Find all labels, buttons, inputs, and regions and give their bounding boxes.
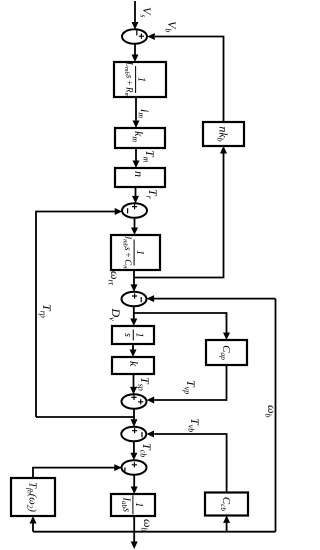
arrowhead bottom into Ccb — [223, 515, 230, 523]
arrowhead bottom into Tfb — [30, 516, 37, 524]
arrowhead into sum2 — [132, 196, 139, 204]
summing junction sum6 — [122, 460, 147, 475]
sign plus sum4 right — [138, 399, 143, 404]
wire sum6 to I-block — [133, 475, 135, 488]
arrowhead into sum3 — [131, 284, 138, 292]
arrowhead into sum6 — [130, 453, 137, 461]
block text fraction 1/(Lmb s+Rm) — [123, 61, 147, 98]
arrowhead Tfb into sum6 — [114, 464, 122, 471]
sign plus sum6 top — [132, 462, 137, 467]
summing junction sum5 — [121, 427, 146, 442]
arrowhead Trp into sum2 — [115, 208, 123, 215]
arrowhead into I-block — [131, 487, 138, 495]
block 1/(Lmb s+Rm) — [114, 62, 166, 97]
svg-text:1: 1 — [134, 250, 145, 255]
wire I-block to output — [133, 516, 135, 542]
wire sum2 to Jblock — [134, 218, 136, 229]
wire km to n — [135, 148, 137, 162]
wire s-block to k-block — [132, 344, 134, 351]
wire Ccb to sum5 — [154, 434, 226, 493]
arrowhead into sum5 — [131, 419, 138, 427]
wire bottom bus — [33, 531, 276, 533]
arrowhead Vb into sum1 — [147, 33, 155, 40]
wire sum5 to sum6 — [133, 441, 135, 453]
sign minus sum2 left — [127, 208, 129, 213]
block km — [115, 128, 165, 148]
svg-text:1: 1 — [136, 77, 147, 82]
arrowhead into k-block — [130, 350, 137, 358]
svg-text:s: s — [122, 333, 133, 337]
wire omega_b right riser — [275, 299, 277, 532]
svg-text:Lmbs + Rm: Lmbs + Rm — [123, 61, 135, 98]
block n — [115, 168, 165, 187]
wire sum3 to s-block — [133, 306, 135, 319]
sign plus sum3 top — [132, 293, 137, 298]
sign minus sum5 right — [141, 432, 143, 437]
wire Tfb to sum6 — [33, 468, 115, 478]
summing junction sum1 — [122, 29, 147, 44]
sign plus sum2 top — [132, 204, 137, 209]
wire omega_rt tap to nkb — [134, 153, 224, 278]
block Tfb(w2) — [11, 478, 55, 516]
wire n to sum2 — [135, 187, 137, 197]
sign minus sum6 left — [124, 467, 126, 472]
sign plus sum4 top — [131, 395, 136, 400]
wire tap to Trp feedback — [36, 416, 134, 418]
arrowhead into Jblock — [131, 228, 138, 236]
wire Cap to sum4 — [154, 365, 226, 400]
wire bottom into Tfb — [32, 523, 34, 532]
svg-text:Tfb(ω2): Tfb(ω2) — [25, 482, 37, 512]
block 1/s — [112, 326, 154, 344]
svg-text:1: 1 — [133, 333, 144, 338]
wire tap to Cap — [134, 313, 227, 334]
arrowhead into km — [133, 121, 140, 129]
arrowhead into n — [133, 161, 140, 169]
block Ccb — [205, 493, 248, 516]
summing junction sum2 — [122, 203, 147, 218]
block Cap — [206, 340, 247, 365]
arrowhead Tvb into sum5 — [147, 431, 155, 438]
wire sum1 to block1 — [134, 44, 136, 56]
sign minus sum3 right — [140, 297, 142, 302]
block text fraction 1/(Jmb s+Cm) — [121, 235, 145, 270]
arrowhead output bottom — [131, 542, 138, 550]
block nkb — [203, 122, 244, 146]
arrowhead omega_b into sum3 — [147, 295, 155, 302]
wire k-block to sum4 — [133, 374, 135, 388]
sign minus sum1 top — [136, 30, 138, 35]
arrowhead Tvp into sum4 — [147, 397, 155, 404]
wire Trp feedback into sum2 — [36, 212, 116, 418]
wire Vs input — [134, 1, 136, 23]
summing junction sum4 — [122, 394, 147, 409]
arrowhead into s-block — [130, 319, 137, 327]
arrowhead into nkb — [220, 146, 227, 154]
svg-text:1: 1 — [133, 502, 144, 507]
wire omega_b into sum3 — [154, 298, 276, 300]
svg-text:n: n — [132, 171, 146, 177]
wire block1 to km — [135, 97, 137, 122]
block 1/(Iab s) — [111, 494, 155, 516]
arrowhead into block1 — [132, 55, 139, 63]
wire Vb feedback horizontal — [155, 37, 224, 123]
block text fraction 1/s — [122, 330, 144, 341]
arrowhead Vs into sum1 — [132, 22, 139, 30]
block text fraction 1/(Iab s) — [120, 495, 144, 514]
wire Jblock to sum3 — [133, 270, 135, 285]
summing junction sum3 — [122, 292, 147, 307]
sign plus sum5 top — [132, 428, 137, 433]
block 1/(Jmb s+Cm) — [111, 235, 160, 270]
sign plus sum1 right — [139, 34, 144, 39]
block k — [112, 357, 154, 374]
wire sum4 to sum5 — [133, 409, 135, 420]
arrowhead into Cap — [223, 333, 230, 341]
arrowhead into sum4 — [130, 387, 137, 395]
wire bottom into Ccb — [226, 523, 228, 532]
svg-text:k: k — [127, 361, 141, 367]
